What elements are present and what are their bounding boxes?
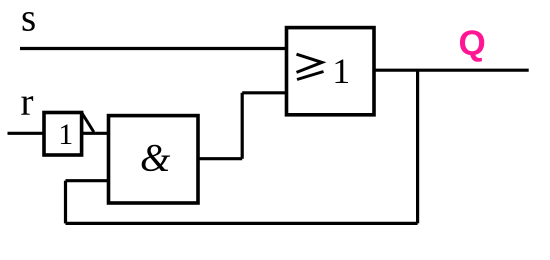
inverter gate box (44, 113, 82, 156)
svg-text:1: 1 (332, 51, 350, 91)
wire r input to inverter (8, 132, 45, 135)
and-gate label & (140, 137, 171, 180)
svg-text:1: 1 (58, 118, 73, 151)
wire feedback left vertical (64, 181, 67, 224)
wire s input to OR gate (20, 47, 287, 50)
wire horizontal into OR gate second input (242, 91, 286, 94)
svg-text:Q: Q (459, 24, 486, 63)
wire feedback into AND second input (66, 179, 109, 182)
svg-text:s: s (21, 0, 36, 39)
wire OR output to Q (374, 69, 529, 72)
node Q label (459, 24, 486, 63)
node r label (21, 81, 34, 124)
svg-text:r: r (21, 81, 34, 124)
wire feedback vertical drop from output (416, 70, 419, 223)
wire vertical up to OR input (241, 93, 244, 159)
and-gate box (109, 116, 199, 203)
wire inverter output to AND gate (82, 132, 109, 135)
svg-text:&: & (140, 137, 171, 180)
node s label (21, 0, 36, 39)
wire feedback bottom horizontal (66, 222, 418, 225)
negation wedge on inverter output (82, 113, 94, 133)
or-gate box (287, 28, 375, 115)
inverter label 1 (58, 118, 73, 151)
wire AND output horizontal (198, 157, 242, 160)
or-gate label >=1 (297, 51, 351, 91)
